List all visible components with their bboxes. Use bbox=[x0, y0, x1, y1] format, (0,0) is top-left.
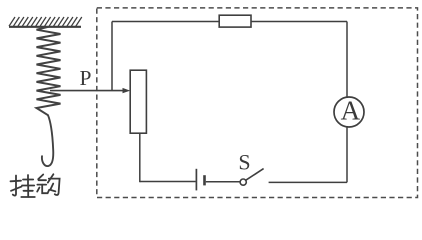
hook bbox=[42, 115, 53, 166]
钩 : 钅 radical bbox=[38, 175, 43, 180]
ceiling support hatching bbox=[9, 17, 82, 26]
label 挂钩 (hand-drawn glyph strokes) bbox=[11, 174, 60, 197]
resistor R bbox=[219, 15, 251, 27]
battery cell: long plate bbox=[195, 169, 197, 191]
wire: switch to right corner bbox=[269, 181, 347, 183]
switch blade bbox=[246, 169, 264, 181]
wire: battery to switch bbox=[206, 181, 240, 183]
钩 : 勹厶 part bbox=[48, 174, 54, 182]
svg-text:S: S bbox=[238, 150, 250, 175]
dashed boundary box bbox=[97, 8, 418, 198]
battery cell: short plate bbox=[203, 175, 206, 185]
svg-text:P: P bbox=[80, 66, 92, 90]
ceiling line bbox=[9, 26, 81, 28]
switch S pivot circle bbox=[240, 179, 246, 185]
wire: right vertical upper bbox=[346, 22, 348, 98]
wire: left vertical (to wiper) bbox=[111, 22, 113, 91]
wire: bottom-left segment bbox=[140, 181, 196, 183]
ammeter A bbox=[334, 97, 364, 127]
挂 : 扌 radical bbox=[13, 176, 16, 196]
wire: rheostat bottom lead bbox=[139, 133, 141, 182]
wire: right vertical lower bbox=[346, 127, 348, 182]
spring bbox=[37, 27, 61, 115]
挂 : 圭 part bbox=[23, 179, 33, 181]
rheostat (slide resistor body) bbox=[130, 70, 146, 133]
wiper arrow P (from spring to rheostat) bbox=[50, 90, 124, 92]
svg-text:A: A bbox=[341, 95, 361, 125]
wire: top bbox=[112, 21, 347, 23]
